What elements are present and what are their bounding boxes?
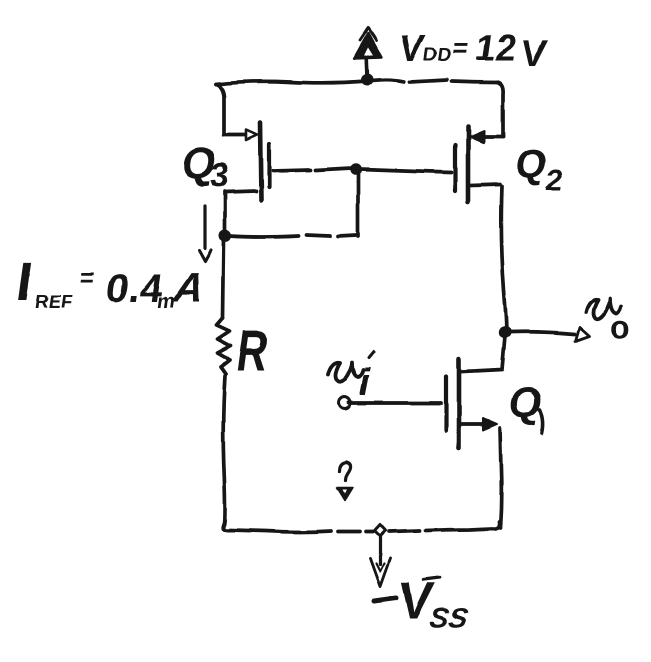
wire bottom rail	[223, 524, 331, 532]
power VDD arrow	[366, 52, 367, 78]
transistor Q1 gate lead	[348, 401, 441, 405]
label VDD = 12 V	[396, 27, 551, 75]
wire resistor to bottom rail	[223, 376, 225, 524]
svg-text:i: i	[359, 362, 371, 404]
svg-text:3: 3	[208, 157, 232, 195]
node drain junction A	[219, 230, 231, 242]
wire gate node vertical drop	[356, 172, 360, 236]
power VSS arrow	[378, 537, 381, 564]
transistor Q3 channel bar	[260, 123, 261, 200]
transistor Q1 gate bar	[444, 377, 448, 431]
transistor Q3 gate bar	[267, 144, 271, 187]
svg-text:I: I	[13, 252, 36, 312]
transistor Q2 drain lead	[471, 184, 500, 185]
transistor Q1 source lead	[462, 422, 484, 426]
svg-text:2: 2	[544, 164, 565, 197]
svg-text:A: A	[169, 264, 207, 311]
transistor Q3 source arrow	[246, 130, 257, 140]
wire top supply rail	[216, 81, 367, 84]
resistor R	[217, 318, 231, 374]
label vi	[328, 362, 363, 382]
wire output lead	[510, 332, 575, 334]
transistor Q3 drain step	[225, 191, 256, 232]
terminal vi	[338, 397, 350, 409]
node output junction	[499, 326, 511, 338]
transistor Q3 gate lead	[273, 170, 310, 171]
symbol reference mark (query arrow)	[340, 462, 351, 480]
wire dashed drain-gate link	[229, 236, 298, 237]
label R	[233, 318, 272, 383]
transistor Q1 source arrow	[483, 418, 497, 430]
svg-text:R: R	[233, 318, 272, 383]
transistor Q2 source lead	[482, 135, 503, 139]
transistor Q3 source lead	[224, 133, 246, 137]
svg-text:SS: SS	[428, 602, 470, 633]
label vo	[586, 299, 621, 319]
svg-text:=: =	[451, 32, 471, 63]
svg-text:12: 12	[473, 27, 519, 68]
transistor Q2 source arrow	[470, 131, 484, 143]
transistor Q1 channel bar	[457, 359, 462, 448]
current arrow IREF	[203, 206, 206, 248]
label IREF = 0.4 mA	[13, 252, 209, 313]
svg-text:DD: DD	[422, 45, 452, 66]
wire right drop from rail to Q2 source	[497, 82, 503, 137]
svg-text:Q: Q	[506, 379, 546, 427]
label Q2	[511, 141, 569, 197]
svg-text:REF: REF	[33, 292, 74, 313]
svg-text:Q: Q	[513, 141, 550, 186]
transistor Q2 gate lead	[360, 169, 451, 172]
wire Q1 drain step	[462, 336, 505, 372]
wire junction A to resistor	[223, 239, 224, 318]
svg-text:o: o	[610, 309, 630, 345]
node VDD junction	[361, 74, 373, 86]
label -VSS	[394, 572, 474, 633]
label Q3	[178, 139, 235, 195]
transistor Q2 channel bar	[466, 127, 471, 202]
wire Q2 drain down to output node	[501, 186, 506, 330]
wire left drop from rail to Q3 source	[216, 84, 224, 135]
transistor Q2 gate bar	[453, 145, 457, 191]
svg-text:=: =	[78, 264, 97, 292]
label Q1	[506, 379, 546, 427]
wire Q1 source to bottom rail	[500, 428, 501, 528]
node gate junction	[350, 163, 362, 175]
svg-text:V: V	[518, 32, 550, 75]
node VSS junction	[375, 525, 386, 537]
terminal vo	[576, 327, 590, 341]
